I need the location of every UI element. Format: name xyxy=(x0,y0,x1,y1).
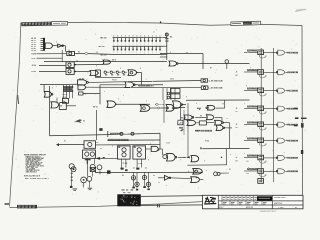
svg-text:P2: P2 xyxy=(186,52,188,54)
svg-text:PG-2041 AB: PG-2041 AB xyxy=(288,71,299,74)
svg-text:L-M 2050 AB: L-M 2050 AB xyxy=(209,87,224,90)
svg-text:J6: J6 xyxy=(236,72,238,74)
svg-text:K2: K2 xyxy=(236,75,238,77)
svg-text:J2 14: J2 14 xyxy=(32,64,36,67)
svg-text:K2: K2 xyxy=(236,160,238,162)
svg-text:J1 22: J1 22 xyxy=(166,143,170,145)
svg-text:C-M 2049 AB: C-M 2049 AB xyxy=(209,79,224,82)
svg-text:REF: SCHEM 33617-2 REV C: REF: SCHEM 33617-2 REV C xyxy=(25,178,50,180)
svg-text:T2 205: T2 205 xyxy=(138,163,143,165)
svg-text:K2: K2 xyxy=(236,111,238,113)
svg-text:B1: B1 xyxy=(97,142,99,144)
svg-text:B2: B2 xyxy=(60,106,62,108)
svg-text:TB1 000: TB1 000 xyxy=(100,37,107,39)
svg-text:W1 06: W1 06 xyxy=(181,117,186,119)
svg-text:NOTE: ALL RES 1-4 W: NOTE: ALL RES 1-4 W xyxy=(24,175,40,178)
svg-text:F6: F6 xyxy=(200,115,202,117)
svg-text:12: 12 xyxy=(68,50,70,52)
svg-text:A27-RN-04: A27-RN-04 xyxy=(247,105,258,108)
svg-text:K1: K1 xyxy=(64,141,66,143)
svg-text:K2 02: K2 02 xyxy=(32,71,37,73)
svg-text:J6: J6 xyxy=(236,108,238,110)
svg-text:B7: B7 xyxy=(210,68,212,70)
svg-text:C8 12: C8 12 xyxy=(170,79,174,81)
svg-text:R2: R2 xyxy=(100,148,102,150)
svg-text:J6: J6 xyxy=(236,157,238,159)
svg-text:PG-2047 AH: PG-2047 AH xyxy=(288,170,299,173)
svg-text:C7: C7 xyxy=(108,154,110,156)
svg-text:SCHEM 33617 REV C: SCHEM 33617 REV C xyxy=(260,211,278,213)
svg-text:C2: C2 xyxy=(158,182,160,184)
svg-text:2: 2 xyxy=(154,32,155,34)
svg-text:6: 6 xyxy=(209,200,210,202)
svg-text:A27-RN-01: A27-RN-01 xyxy=(247,49,258,52)
svg-text:11: 11 xyxy=(226,118,228,120)
svg-text:G1 05: G1 05 xyxy=(31,50,36,52)
svg-text:H2 09: H2 09 xyxy=(32,54,37,56)
svg-text:R9: R9 xyxy=(78,52,80,54)
svg-text:SEE NOTE 4: SEE NOTE 4 xyxy=(26,170,37,173)
svg-text:A27-RN-03: A27-RN-03 xyxy=(247,87,258,90)
svg-text:2: 2 xyxy=(206,170,207,172)
svg-text:PG-2045 AF: PG-2045 AF xyxy=(288,139,299,142)
svg-text:I2 06: I2 06 xyxy=(32,58,36,60)
svg-text:Q1: Q1 xyxy=(133,168,135,170)
svg-text:H3: H3 xyxy=(200,147,202,149)
svg-text:PG-2042 AC: PG-2042 AC xyxy=(288,89,299,92)
svg-text:A27-RN-02: A27-RN-02 xyxy=(247,69,258,72)
svg-text:R5: R5 xyxy=(153,175,155,177)
svg-text:5 9 7 2: 5 9 7 2 xyxy=(62,94,67,96)
svg-text:1: 1 xyxy=(179,123,180,125)
svg-text:C 33617: C 33617 xyxy=(278,207,284,209)
svg-text:J6: J6 xyxy=(236,124,238,126)
svg-text:T9: T9 xyxy=(222,104,224,106)
svg-text:B-2: B-2 xyxy=(246,173,249,175)
svg-text:V2: V2 xyxy=(83,121,85,123)
svg-text:T3: T3 xyxy=(84,94,86,96)
svg-text:A27-RN-05: A27-RN-05 xyxy=(247,121,258,124)
svg-text:Q2 118: Q2 118 xyxy=(79,78,84,80)
svg-text:R2: R2 xyxy=(295,207,297,209)
svg-text:Q2: Q2 xyxy=(145,168,147,170)
svg-text:A27-RN-07: A27-RN-07 xyxy=(247,155,258,158)
svg-text:TB3 000: TB3 000 xyxy=(100,54,107,56)
svg-text:R4: R4 xyxy=(170,36,172,39)
svg-text:SCHEM 33617: SCHEM 33617 xyxy=(274,197,286,199)
svg-text:TB2 000: TB2 000 xyxy=(98,46,105,48)
svg-text:PG-2040 AA: PG-2040 AA xyxy=(288,51,299,54)
svg-text:PG-2046 AG: PG-2046 AG xyxy=(288,157,299,160)
svg-text:K2: K2 xyxy=(236,127,238,129)
svg-text:A27-RN-06: A27-RN-06 xyxy=(247,137,258,140)
svg-text:D3 96: D3 96 xyxy=(160,104,164,106)
svg-text:UNIT PS-2: UNIT PS-2 xyxy=(274,203,282,205)
